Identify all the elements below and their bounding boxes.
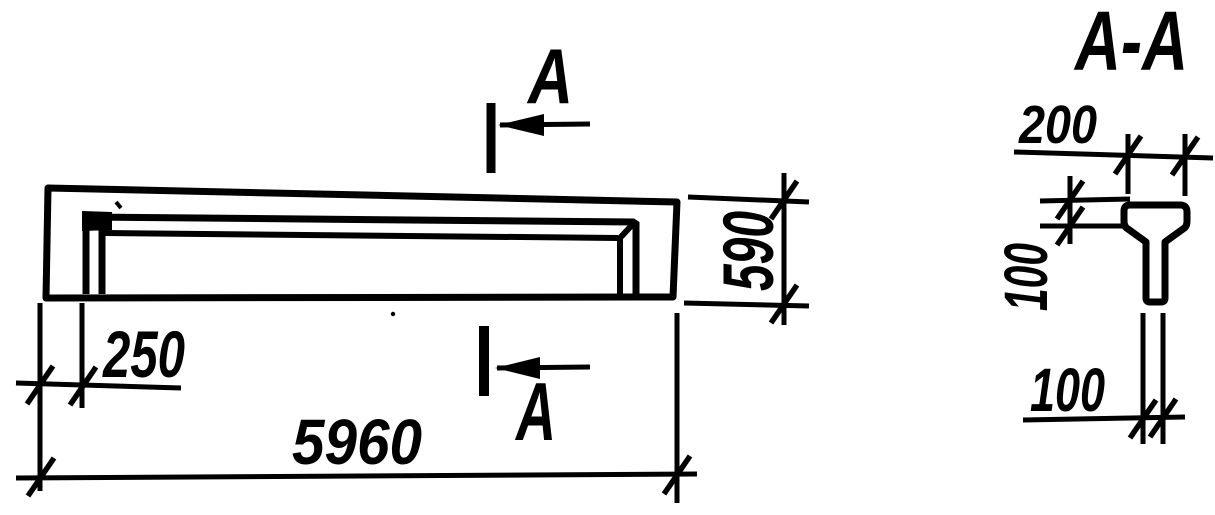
svg-text:A: A — [526, 32, 573, 120]
svg-text:A: A — [515, 365, 556, 458]
svg-text:250: 250 — [102, 317, 186, 391]
svg-text:5960: 5960 — [292, 406, 422, 478]
svg-text:100: 100 — [1030, 356, 1105, 424]
svg-text:590: 590 — [710, 211, 789, 291]
svg-text:A-A: A-A — [1073, 0, 1188, 88]
svg-text:100: 100 — [992, 243, 1060, 311]
svg-text:200: 200 — [1018, 95, 1097, 155]
